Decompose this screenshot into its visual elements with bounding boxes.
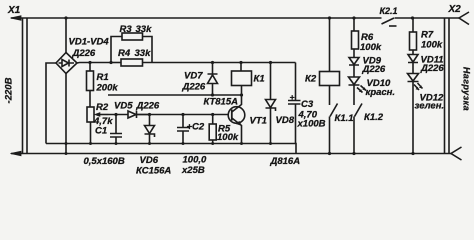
node collector	[240, 93, 243, 96]
resistor R6 body	[352, 31, 359, 49]
svg-text:Д226: Д226	[136, 101, 160, 112]
LED VD12	[408, 74, 419, 154]
wire left mains vertical 2	[26, 18, 28, 154]
node VD8 top	[269, 61, 272, 64]
svg-text:R1: R1	[97, 72, 109, 83]
diode VD5	[128, 111, 150, 118]
wire plus bus from bridge to R3R4	[77, 62, 111, 65]
bridge internal diode	[59, 60, 75, 67]
wire plus bus R4 to C3 corner	[143, 62, 296, 64]
svg-text:КТ815А: КТ815А	[204, 97, 239, 108]
svg-text:X1: X1	[7, 5, 21, 16]
resistor R1 body	[87, 71, 94, 91]
node bottom rail bridge column	[65, 152, 68, 155]
wire left mains vertical 1	[22, 18, 24, 154]
transistor VT1	[228, 107, 245, 124]
svg-text:100,0: 100,0	[183, 155, 207, 166]
connector X1 pin top arrow	[11, 16, 22, 21]
wire top rail left of contact K2.1	[11, 17, 382, 19]
svg-text:К1: К1	[254, 74, 265, 85]
contact K2.1 blade	[382, 18, 395, 24]
node R7 top rail	[411, 16, 414, 19]
svg-text:К2: К2	[305, 74, 317, 85]
svg-text:R2: R2	[96, 102, 109, 113]
node K1.2 rail	[352, 152, 355, 155]
relay K1 coil box	[232, 71, 252, 86]
svg-text:0,5х160В: 0,5х160В	[84, 156, 125, 167]
wire R7 to VD11	[412, 50, 414, 55]
wire K1 top lead	[240, 63, 242, 72]
svg-text:КС156А: КС156А	[136, 166, 171, 177]
node VD12 rail	[411, 152, 414, 155]
svg-text:R3: R3	[120, 24, 133, 35]
wire right load vertical 1	[444, 18, 446, 154]
wire K1 bottom lead	[241, 86, 243, 96]
svg-text:100k: 100k	[360, 42, 382, 53]
svg-text:Нагрузка: Нагрузка	[462, 67, 472, 111]
VT1 collector	[232, 95, 242, 112]
wire C3 riser from plus bus	[295, 63, 297, 101]
connector X2 bottom socket chevron	[451, 147, 462, 160]
node K2 top rail	[328, 16, 331, 19]
svg-text:+: +	[290, 92, 295, 102]
node K1.1 rail	[328, 152, 331, 155]
svg-text:-220В: -220В	[4, 77, 15, 103]
wire R4 left lead	[111, 62, 121, 64]
wire R6 to VD9	[353, 49, 355, 58]
resistor R3 body	[122, 33, 143, 40]
wire R3 loop left riser	[111, 37, 122, 63]
diode VD7	[208, 63, 218, 96]
connector X2 top socket chevron	[459, 12, 469, 25]
svg-text:зелен.: зелен.	[415, 101, 445, 112]
wire R3 right lead	[143, 37, 153, 63]
node C1 top	[114, 113, 117, 116]
svg-text:х25В: х25В	[181, 165, 205, 176]
svg-text:VD7: VD7	[184, 71, 203, 82]
zener VD8	[266, 63, 276, 144]
capacitor C1	[110, 115, 122, 144]
svg-text:100k: 100k	[421, 40, 443, 51]
node minus bus ticks	[65, 142, 68, 145]
wire R5 leads	[212, 115, 214, 144]
resistor R7 body	[410, 32, 417, 50]
wire top rail right of contact K2.1	[395, 17, 460, 19]
wire K1.1 to bottom rail	[329, 117, 331, 154]
svg-text:100k: 100k	[217, 132, 239, 143]
node VD7 top	[211, 61, 214, 64]
VT1 emitter	[232, 118, 242, 144]
svg-text:Д816А: Д816А	[270, 156, 301, 167]
LED VD10 arrows	[357, 86, 366, 93]
wire K2 bottom lead	[329, 86, 331, 106]
wire R6 top lead	[353, 18, 355, 31]
svg-text:C1: C1	[95, 126, 107, 137]
node R1 top	[88, 61, 91, 64]
svg-text:К1.1: К1.1	[335, 113, 354, 124]
svg-text:Д226: Д226	[182, 82, 206, 93]
trimmer R2 wiper arrow	[99, 114, 109, 116]
node R5 top	[211, 113, 214, 116]
wire right load vertical 2	[448, 18, 450, 154]
svg-text:200k: 200k	[96, 83, 119, 94]
svg-text:X2: X2	[448, 4, 462, 15]
svg-text:VD6: VD6	[140, 155, 159, 166]
contact K1.1 blade	[330, 104, 338, 117]
wire R2 bottom lead	[90, 122, 92, 144]
wire K2 top lead	[329, 18, 331, 72]
wire base line wiper to VT1	[109, 114, 129, 116]
svg-text:х100В: х100В	[297, 119, 326, 130]
LED VD12 arrows	[414, 83, 423, 90]
resistor R5 body	[209, 124, 216, 140]
svg-text:R4: R4	[118, 48, 131, 59]
node VD7 bottom	[211, 93, 214, 96]
capacitor C3	[288, 101, 301, 144]
svg-text:Д226: Д226	[362, 64, 386, 75]
svg-text:Д226: Д226	[72, 48, 96, 59]
contact K2.1 dash mark	[389, 25, 397, 27]
svg-text:33k: 33k	[135, 48, 152, 59]
node C2 top	[181, 113, 184, 116]
diode VD11	[408, 55, 418, 74]
svg-text:Д226: Д226	[420, 63, 444, 74]
contact K1.2 blade	[355, 104, 363, 117]
resistor R4 body	[121, 59, 143, 66]
connector X1 pin bottom arrow	[11, 151, 22, 156]
svg-text:33k: 33k	[136, 24, 153, 35]
node R3R4 left	[109, 61, 112, 64]
svg-text:+C2: +C2	[187, 122, 205, 133]
svg-text:VT1: VT1	[250, 116, 267, 127]
node R6 top rail	[352, 16, 355, 19]
wire R7 top lead	[412, 18, 414, 32]
svg-text:красн.: красн.	[366, 87, 396, 98]
wire bridge left vertex to minus bus	[46, 63, 56, 144]
svg-text:VD5: VD5	[114, 101, 133, 112]
node VD6 top	[148, 113, 151, 116]
node top rail to bridge	[64, 16, 67, 19]
wire R1 top lead	[89, 63, 91, 72]
zener VD6	[145, 115, 155, 144]
diode VD9	[349, 58, 359, 66]
svg-text:VD1-VD4: VD1-VD4	[69, 37, 110, 48]
relay K2 coil box	[320, 72, 340, 86]
svg-text:С3: С3	[301, 99, 314, 110]
wire collector line horizontal	[108, 94, 242, 96]
wire R1 to R2	[89, 91, 91, 108]
node K1 top	[239, 61, 242, 64]
LED VD10	[349, 65, 360, 105]
svg-text:К1.2: К1.2	[364, 112, 384, 123]
svg-text:VD8: VD8	[276, 115, 295, 126]
wire bridge top feed	[65, 18, 67, 53]
capacitor C2	[177, 115, 189, 144]
wire bottom rail	[11, 153, 451, 155]
trimmer R2 body	[87, 107, 94, 122]
wire base line VD5 to VT1	[137, 114, 229, 116]
rectifier bridge VD1-VD4 diamond	[56, 53, 77, 74]
wire K1.2 to bottom rail	[353, 117, 355, 154]
svg-text:К2.1: К2.1	[380, 6, 398, 16]
minus bus	[46, 144, 296, 154]
wire bridge bottom vertex down to bottom rail	[65, 74, 67, 154]
